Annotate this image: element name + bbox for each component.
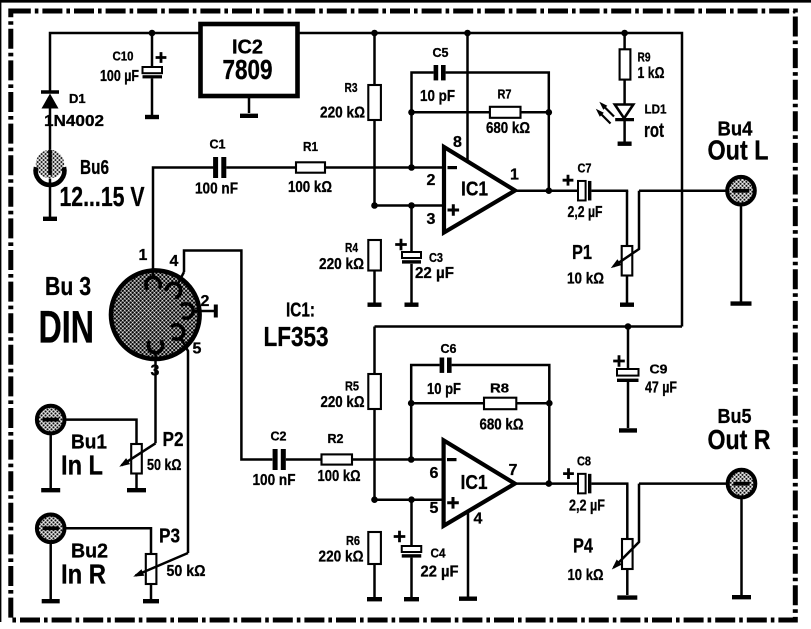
ground <box>459 597 477 601</box>
svg-text:R3: R3 <box>345 80 358 95</box>
svg-text:C10: C10 <box>113 49 134 64</box>
svg-text:100 nF: 100 nF <box>253 472 296 489</box>
wire <box>49 179 52 217</box>
socket Bu4 <box>727 177 755 205</box>
svg-text:100 µF: 100 µF <box>100 68 139 85</box>
ground <box>617 595 637 599</box>
capacitor C4 <box>410 500 413 546</box>
wire <box>49 109 52 152</box>
svg-text:6: 6 <box>430 465 439 482</box>
ground <box>143 599 159 603</box>
svg-text:C2: C2 <box>271 429 287 444</box>
svg-text:LD1: LD1 <box>645 102 667 117</box>
svg-text:50 kΩ: 50 kΩ <box>167 563 206 580</box>
svg-text:10 kΩ: 10 kΩ <box>568 567 604 584</box>
resistor R4 <box>368 240 381 271</box>
ground <box>145 115 159 119</box>
junction <box>408 109 415 116</box>
ground <box>404 597 419 601</box>
LED LD1 <box>615 105 634 119</box>
resistor R2 <box>322 454 353 464</box>
wire <box>412 73 434 168</box>
potentiometer P2 <box>131 444 142 474</box>
junction <box>149 30 156 37</box>
junction <box>546 400 553 407</box>
svg-text:R8: R8 <box>490 381 509 396</box>
svg-text:LF353: LF353 <box>264 321 329 352</box>
svg-text:3: 3 <box>427 211 436 228</box>
svg-text:100 kΩ: 100 kΩ <box>288 179 332 196</box>
socket Bu1 <box>37 406 65 434</box>
resistor R5 <box>373 327 376 500</box>
regulator IC2 <box>201 24 298 96</box>
svg-text:22 µF: 22 µF <box>421 564 459 581</box>
svg-text:P2: P2 <box>163 429 184 451</box>
capacitor C3 <box>410 206 413 253</box>
wire <box>65 420 137 444</box>
svg-text:10 kΩ: 10 kΩ <box>567 271 604 288</box>
ground <box>619 428 637 432</box>
svg-text:C9: C9 <box>650 362 668 377</box>
resistor R9 <box>623 33 626 49</box>
junction <box>371 496 378 503</box>
wire <box>591 189 628 192</box>
svg-text:680 kΩ: 680 kΩ <box>480 417 524 434</box>
svg-text:220 kΩ: 220 kΩ <box>319 256 364 273</box>
svg-text:C7: C7 <box>578 161 592 176</box>
svg-text:R7: R7 <box>498 87 512 102</box>
svg-text:IC1: IC1 <box>461 179 488 201</box>
wire <box>154 351 157 443</box>
svg-text:C6: C6 <box>441 341 457 356</box>
svg-text:100 kΩ: 100 kΩ <box>318 468 361 485</box>
wire <box>411 365 439 460</box>
wire <box>375 325 683 328</box>
svg-text:4: 4 <box>474 511 483 528</box>
svg-text:5: 5 <box>193 341 202 358</box>
svg-text:Bu6: Bu6 <box>80 157 109 179</box>
svg-text:In R: In R <box>61 559 106 590</box>
potentiometer P3 <box>146 554 157 584</box>
wire <box>446 73 549 192</box>
wire <box>591 482 628 485</box>
svg-text:R9: R9 <box>638 50 651 65</box>
svg-text:7: 7 <box>509 462 518 479</box>
socket Bu6 <box>36 150 64 178</box>
ground <box>367 597 382 601</box>
socket Bu5 <box>728 470 756 498</box>
svg-text:IC1:: IC1: <box>286 300 315 322</box>
junction <box>546 109 553 116</box>
socket Bu2 <box>37 515 65 543</box>
svg-text:P4: P4 <box>573 536 594 558</box>
op-amp U1a <box>444 147 515 233</box>
junction <box>546 480 553 487</box>
capacitor C7 <box>578 181 586 201</box>
potentiometer P4 <box>626 484 629 539</box>
svg-text:R4: R4 <box>345 240 359 255</box>
wire <box>515 189 578 192</box>
svg-text:C5: C5 <box>433 45 449 60</box>
svg-text:4: 4 <box>170 253 179 270</box>
svg-text:10 pF: 10 pF <box>427 381 461 398</box>
junction <box>625 323 632 330</box>
ground <box>240 114 258 118</box>
junction <box>408 456 415 463</box>
junction <box>464 30 471 37</box>
svg-text:1 kΩ: 1 kΩ <box>638 65 665 82</box>
wire <box>153 168 213 279</box>
svg-text:8: 8 <box>453 134 462 151</box>
ground <box>405 303 419 307</box>
resistor R6 <box>368 532 381 564</box>
wire <box>375 498 444 501</box>
svg-text:2: 2 <box>427 172 436 189</box>
ground <box>618 141 632 145</box>
resistor R8 <box>411 402 549 405</box>
svg-text:Bu 3: Bu 3 <box>45 271 91 301</box>
svg-text:R1: R1 <box>303 139 318 154</box>
junction <box>408 400 415 407</box>
resistor R7 <box>412 111 549 114</box>
capacitor C9 <box>627 327 630 370</box>
svg-text:220 kΩ: 220 kΩ <box>321 394 365 411</box>
wire <box>184 251 272 460</box>
svg-text:7809: 7809 <box>223 54 273 85</box>
svg-text:1: 1 <box>510 167 519 184</box>
junction <box>408 202 415 209</box>
svg-text:2,2 µF: 2,2 µF <box>569 498 605 515</box>
resistor R1 <box>296 162 325 172</box>
svg-text:P3: P3 <box>159 526 180 548</box>
wire <box>192 310 214 313</box>
capacitor C5 <box>434 65 439 80</box>
connector Bu3 DIN <box>111 271 199 359</box>
junction <box>408 496 415 503</box>
svg-text:C4: C4 <box>431 546 447 561</box>
wire <box>181 338 189 554</box>
svg-text:Out R: Out R <box>708 424 771 455</box>
svg-text:DIN: DIN <box>39 302 95 353</box>
wire <box>298 33 683 327</box>
svg-text:In L: In L <box>61 450 103 481</box>
svg-text:100 nF: 100 nF <box>195 181 238 198</box>
ground <box>368 303 382 307</box>
ground <box>127 488 146 492</box>
svg-text:2,2 µF: 2,2 µF <box>568 204 603 221</box>
svg-text:12...15 V: 12...15 V <box>60 181 145 212</box>
potentiometer P1 <box>626 191 629 246</box>
ground <box>620 303 634 307</box>
junction <box>621 30 628 37</box>
svg-text:47 µF: 47 µF <box>645 380 677 397</box>
terminal bar <box>43 217 57 221</box>
svg-text:10 pF: 10 pF <box>420 88 455 105</box>
svg-text:220 kΩ: 220 kΩ <box>320 105 365 122</box>
svg-text:C1: C1 <box>210 137 226 152</box>
svg-text:P1: P1 <box>572 242 592 264</box>
wire <box>226 166 444 169</box>
wire <box>50 33 201 91</box>
svg-text:D1: D1 <box>69 91 86 106</box>
svg-text:R5: R5 <box>345 379 359 394</box>
terminal bar <box>214 305 218 318</box>
svg-text:R6: R6 <box>346 533 360 548</box>
svg-text:C3: C3 <box>429 250 443 265</box>
wire <box>286 458 444 461</box>
svg-text:22 µF: 22 µF <box>415 265 454 282</box>
wire <box>515 482 578 485</box>
svg-text:220 kΩ: 220 kΩ <box>319 549 364 566</box>
svg-text:Out L: Out L <box>708 135 769 166</box>
junction <box>546 187 553 194</box>
wire <box>466 33 469 163</box>
svg-text:C8: C8 <box>577 454 591 469</box>
junction <box>408 164 415 171</box>
wire <box>65 528 152 554</box>
svg-text:2: 2 <box>201 293 210 310</box>
svg-text:R2: R2 <box>328 431 344 446</box>
capacitor C8 <box>578 474 586 494</box>
svg-text:IC1: IC1 <box>461 472 488 494</box>
svg-text:680 kΩ: 680 kΩ <box>486 120 530 137</box>
capacitor C1 <box>213 157 218 178</box>
svg-text:1: 1 <box>139 247 148 264</box>
capacitor C10 <box>151 35 154 67</box>
wire <box>467 512 470 597</box>
capacitor C6 <box>440 358 445 373</box>
diode D1 <box>41 90 59 93</box>
svg-text:50 kΩ: 50 kΩ <box>147 457 182 474</box>
capacitor C2 <box>273 449 278 470</box>
junction <box>371 202 378 209</box>
svg-text:5: 5 <box>430 500 439 517</box>
resistor R3 <box>373 33 376 206</box>
svg-text:rot: rot <box>644 120 664 142</box>
wire <box>452 365 550 484</box>
wire <box>375 204 445 207</box>
junction <box>371 30 378 37</box>
op-amp U1b <box>444 440 515 526</box>
svg-text:1N4002: 1N4002 <box>44 113 104 130</box>
